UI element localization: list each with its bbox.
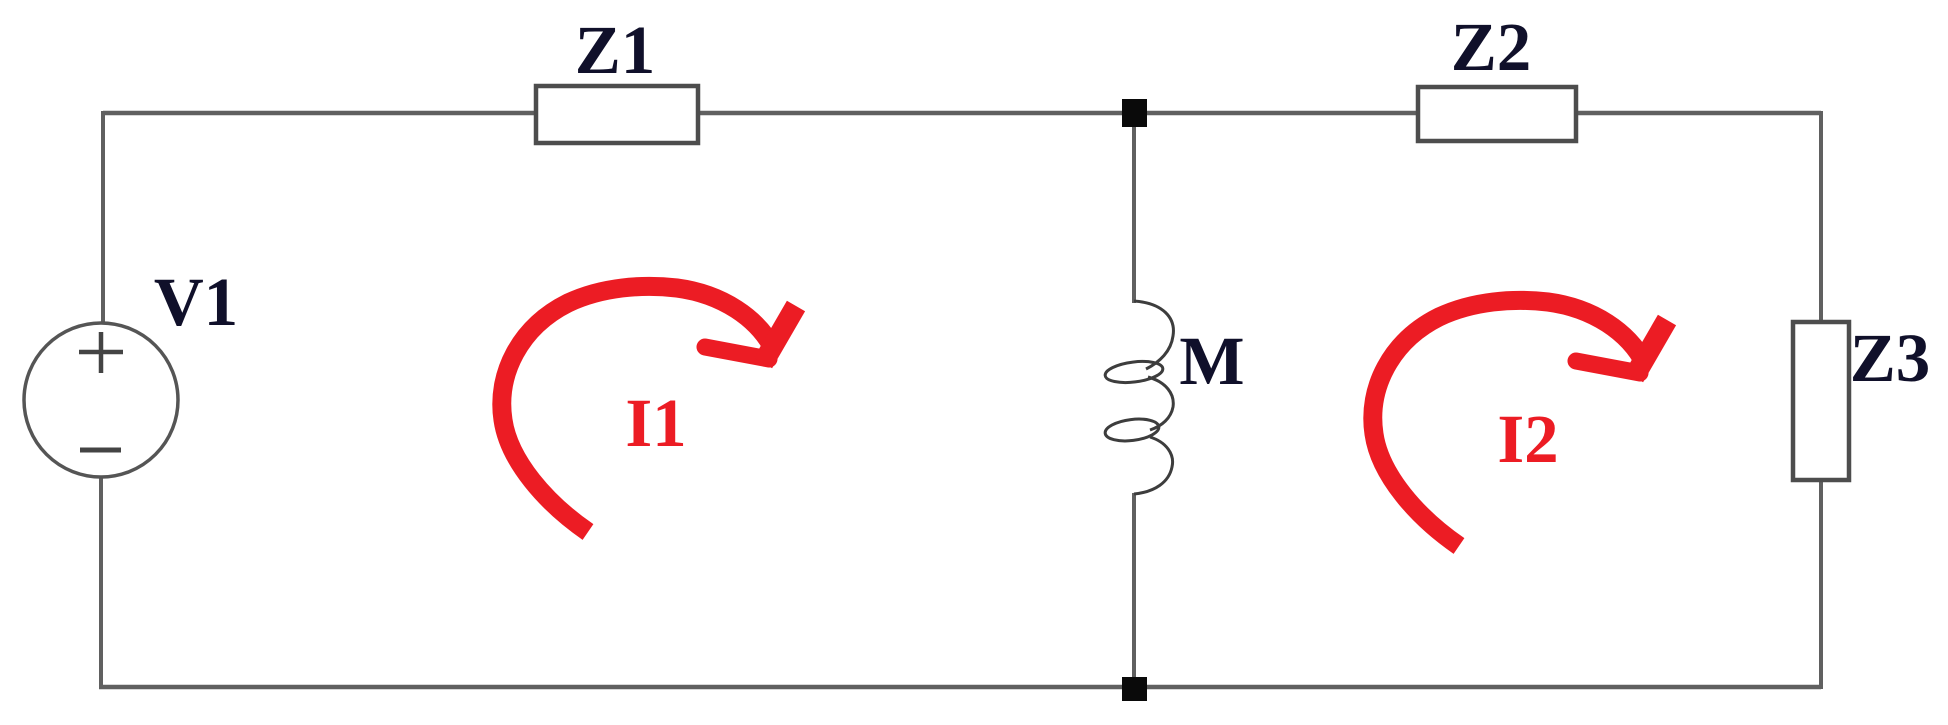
wire right lower vertical bbox=[1819, 478, 1823, 689]
svg-text:Z2: Z2 bbox=[1451, 9, 1532, 85]
node junction top bbox=[1122, 99, 1147, 127]
resistor Z2 bbox=[1418, 87, 1576, 141]
svg-text:Z1: Z1 bbox=[575, 12, 656, 88]
resistor Z3 bbox=[1793, 322, 1849, 480]
inductor M coil bump 3 bbox=[1134, 437, 1173, 494]
svg-text:V1: V1 bbox=[154, 264, 238, 340]
node junction bottom bbox=[1122, 677, 1147, 701]
inductor M loop 1 bbox=[1104, 359, 1164, 386]
voltage source plus sign bbox=[79, 332, 123, 373]
inductor M coil bump 2 bbox=[1148, 377, 1173, 430]
resistor Z1 bbox=[536, 86, 698, 143]
voltage source minus sign bbox=[80, 448, 121, 453]
inductor M coil bump 1 bbox=[1134, 301, 1173, 369]
wire right upper vertical bbox=[1819, 111, 1823, 324]
svg-text:I1: I1 bbox=[625, 385, 686, 461]
svg-text:Z3: Z3 bbox=[1850, 320, 1931, 396]
wire left lower vertical bbox=[99, 476, 103, 689]
svg-text:M: M bbox=[1179, 323, 1244, 399]
wire bottom horizontal bbox=[99, 685, 1821, 690]
wire middle upper vertical bbox=[1132, 113, 1136, 303]
inductor M loop 2 bbox=[1104, 416, 1160, 443]
wire top horizontal bbox=[103, 111, 1821, 116]
current arrow I1 bbox=[502, 286, 796, 532]
voltage source V1 circle bbox=[24, 323, 178, 477]
current arrow I2 bbox=[1373, 300, 1667, 546]
svg-text:I2: I2 bbox=[1497, 401, 1558, 477]
wire left vertical bbox=[101, 111, 105, 325]
wire middle lower vertical bbox=[1132, 493, 1136, 687]
